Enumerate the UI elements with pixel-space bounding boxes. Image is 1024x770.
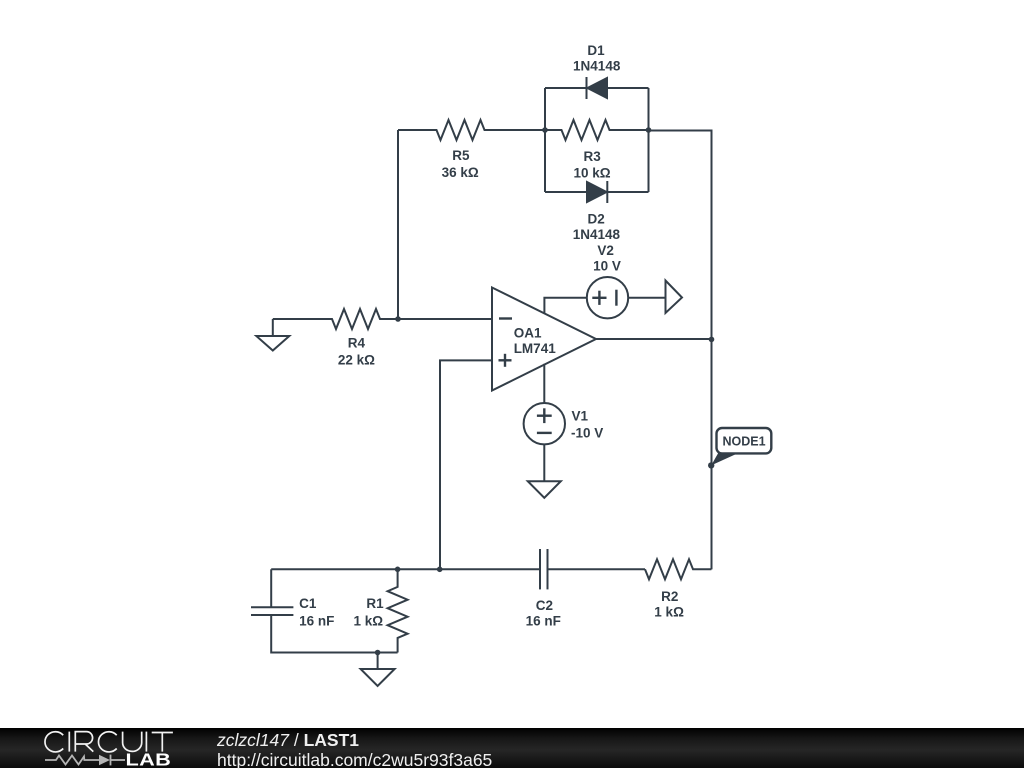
op-amp minus sign (499, 317, 512, 319)
voltage source V2 (587, 277, 628, 318)
svg-text:C2: C2 (536, 598, 553, 613)
svg-text:V1: V1 (572, 408, 589, 423)
resistor R2 (645, 559, 711, 579)
wire: box right vertical (648, 88, 650, 192)
CircuitLab logo (0, 728, 200, 768)
wire: box top (D1 branch) (545, 87, 587, 89)
resistor R3 (545, 120, 649, 140)
node: R1 top junction (395, 567, 401, 573)
svg-text:R4: R4 (348, 336, 366, 351)
capacitor C1 (251, 607, 293, 615)
svg-text:LM741: LM741 (514, 341, 557, 356)
svg-text:R2: R2 (661, 589, 678, 604)
svg-text:D2: D2 (587, 212, 604, 227)
svg-text:OA1: OA1 (514, 326, 542, 341)
svg-text:10 kΩ: 10 kΩ (574, 165, 611, 180)
diode D2 (587, 181, 607, 203)
wire: V1 to ground (543, 444, 545, 481)
ground at V1 (528, 481, 561, 498)
node: output junction (709, 337, 715, 343)
svg-text:-10 V: -10 V (571, 426, 603, 441)
svg-text:R1: R1 (366, 596, 384, 611)
wire: left vertical feedback (397, 130, 399, 319)
op-amp plus sign (499, 354, 512, 367)
svg-text:V2: V2 (597, 243, 614, 258)
ground at R1 (361, 669, 395, 686)
wire: bottom rail (271, 568, 540, 570)
node: inverting input junction (395, 316, 401, 322)
wire: box bottom (D2 branch) (545, 191, 587, 193)
wire: box left vertical (544, 88, 546, 192)
node: ground junction bottom (375, 650, 381, 656)
logo resistor-diode glyph (45, 755, 125, 766)
ground at R4 (256, 319, 289, 351)
NODE1 flag tail (711, 453, 739, 466)
NODE1 flag box (717, 428, 772, 453)
capacitor C2 (540, 549, 548, 589)
svg-text:16 nF: 16 nF (526, 614, 561, 629)
wire: C2 to R2 (548, 568, 646, 570)
node: R5/R3 junction (542, 127, 548, 133)
footer text (217, 730, 492, 770)
svg-text:1N4148: 1N4148 (573, 227, 621, 242)
voltage source V1 (524, 403, 565, 444)
wire: output column down (711, 339, 713, 569)
node: R3/right junction (646, 127, 652, 133)
wire: R2 corner up (710, 568, 712, 569)
output arrow marker (666, 281, 683, 314)
wire: op-amp V+ stub (544, 298, 586, 314)
svg-text:LAB: LAB (126, 750, 172, 768)
wire: non-inverting input (440, 360, 492, 569)
wire: op-amp V- stub (543, 364, 545, 403)
resistor R1 (388, 569, 408, 652)
node: plus-wire junction (437, 567, 443, 573)
svg-text:36 kΩ: 36 kΩ (442, 165, 479, 180)
svg-text:10 V: 10 V (593, 259, 621, 274)
diode D1 (587, 77, 608, 99)
op-amp OA1 (492, 288, 596, 391)
svg-text:NODE1: NODE1 (722, 435, 765, 449)
wire: op-amp output (596, 338, 712, 340)
svg-text:1 kΩ: 1 kΩ (654, 605, 684, 620)
svg-text:1N4148: 1N4148 (573, 58, 621, 73)
wire: V2 to arrow (628, 297, 665, 299)
wire: C1 bottom branch (271, 615, 397, 653)
svg-text:1 kΩ: 1 kΩ (354, 613, 384, 628)
svg-text:R3: R3 (583, 149, 601, 164)
node: NODE1 attach dot (708, 462, 714, 468)
svg-text:22 kΩ: 22 kΩ (338, 352, 375, 367)
wire: top right to output column (649, 131, 712, 340)
svg-text:C1: C1 (299, 596, 317, 611)
logo word CIRCUIT (45, 732, 173, 752)
wire: ground stub (377, 653, 379, 670)
resistor R4 (273, 309, 492, 329)
footer bar (0, 728, 1024, 768)
resistor R5 (398, 120, 545, 140)
wire: C1 left branch down (270, 569, 272, 607)
svg-text:R5: R5 (452, 148, 470, 163)
svg-text:16 nF: 16 nF (299, 613, 334, 628)
svg-text:D1: D1 (587, 43, 605, 58)
